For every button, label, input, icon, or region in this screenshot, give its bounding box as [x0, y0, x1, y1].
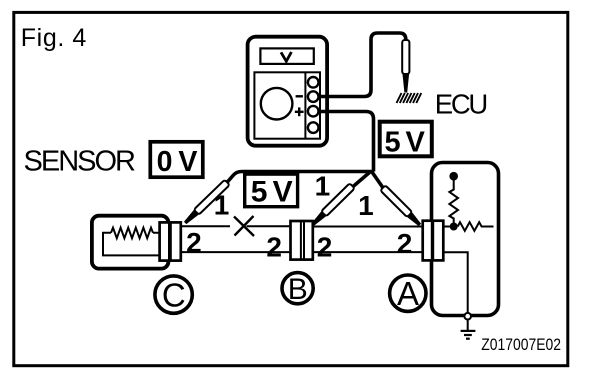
svg-text:5 V: 5 V	[385, 126, 426, 158]
multimeter plus sign	[295, 107, 304, 116]
ECU edge through connector A	[431, 220, 434, 262]
multimeter jack 3 (positive)	[308, 106, 319, 117]
wire C-B pin 1	[182, 225, 230, 227]
probe negative (to ground) body	[402, 40, 409, 93]
svg-text:1: 1	[315, 170, 331, 201]
connector B mating lines	[301, 221, 304, 260]
multimeter U1 body	[248, 37, 328, 146]
svg-text:2: 2	[397, 228, 413, 259]
sensor resistor leads	[103, 233, 160, 256]
multimeter display V symbol	[281, 52, 291, 61]
ground (chassis hatch under negative probe)	[397, 93, 422, 103]
multimeter jack 4	[308, 122, 319, 133]
multimeter display	[260, 48, 313, 64]
connector C	[160, 222, 181, 260]
multimeter jack 2 (negative)	[308, 91, 319, 102]
wire connector A to ECU junction	[445, 226, 450, 228]
wire B-A pin 2	[314, 251, 422, 253]
svg-text:2: 2	[266, 232, 282, 263]
wire negative test lead	[319, 33, 406, 97]
voltage label box 0 V	[150, 142, 203, 177]
svg-text:ECU: ECU	[435, 89, 489, 120]
sensor edge through connector C	[168, 222, 172, 261]
svg-text:B: B	[288, 273, 308, 306]
ECU box	[432, 163, 499, 316]
svg-text:1: 1	[358, 190, 374, 221]
sensor resistor R (zigzag)	[111, 228, 153, 239]
svg-text:A: A	[397, 275, 419, 312]
connector B	[291, 221, 313, 260]
ECU pull-up resistor (vertical zigzag)	[449, 176, 458, 223]
break mark X on wire C-B pin 1	[234, 216, 254, 236]
ECU supply node dot	[449, 172, 458, 181]
svg-text:0 V: 0 V	[157, 146, 198, 178]
ground node (open circle on ECU bottom edge)	[464, 313, 471, 320]
wire C-B pin 2	[182, 251, 289, 253]
multimeter jack strip divider	[304, 72, 306, 138]
ECU junction dot	[450, 223, 458, 231]
node A circle	[390, 275, 426, 311]
multimeter jack 1	[308, 77, 319, 88]
sensor body	[92, 216, 168, 269]
multimeter dial	[261, 88, 293, 120]
wire ground node to earth	[467, 320, 469, 331]
voltage label box 5 V (at connector B)	[245, 174, 298, 207]
svg-text:Fig. 4: Fig. 4	[21, 24, 87, 52]
wire junction to probe A cord	[372, 172, 384, 189]
multimeter minus sign	[296, 95, 303, 97]
wire junction to probe B cord	[353, 172, 371, 187]
svg-text:C: C	[162, 276, 186, 313]
node C circle	[155, 276, 192, 313]
svg-text:2: 2	[317, 232, 333, 263]
probe at connector B pin 1	[310, 183, 355, 227]
svg-text:Z017007E02: Z017007E02	[481, 335, 561, 354]
svg-text:2: 2	[186, 227, 202, 258]
wire connector A pin 2 to ground node	[445, 252, 468, 313]
ECU input resistor (horizontal zigzag)	[458, 222, 494, 231]
multimeter front panel	[254, 72, 320, 138]
probe at connector A pin 1	[380, 185, 422, 227]
wire positive test lead	[319, 112, 374, 172]
wire probe junction to sensor side (horizontal + bend to probe C)	[227, 172, 374, 184]
svg-text:5 V: 5 V	[251, 176, 293, 209]
probe at connector C pin 1	[183, 180, 230, 226]
voltage label box 5 V (at ECU)	[380, 122, 432, 157]
svg-text:1: 1	[214, 190, 230, 221]
node B circle	[282, 273, 313, 304]
connector A	[423, 221, 444, 261]
svg-text:SENSOR: SENSOR	[24, 146, 137, 178]
ground (earth symbol below ECU)	[461, 331, 476, 339]
wire B-A pin 1	[314, 226, 422, 228]
